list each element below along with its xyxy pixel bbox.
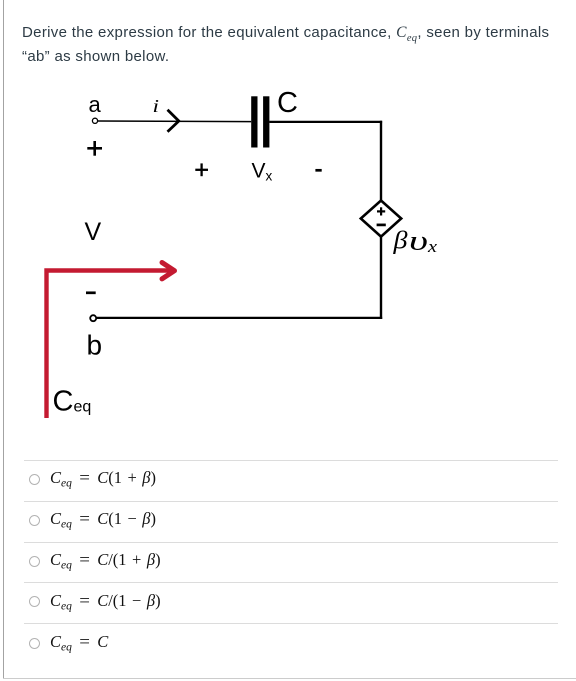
current arrow <box>168 110 179 132</box>
svg-text:C: C <box>277 87 298 119</box>
terminal b <box>90 315 96 321</box>
wire a to capacitor <box>98 120 252 123</box>
terminal a <box>92 118 97 123</box>
option 2 <box>29 515 40 526</box>
minus at terminal b <box>86 291 96 294</box>
wire source to bottom-right corner <box>380 236 382 320</box>
svg-text:β: β <box>392 228 408 255</box>
plus label of Vx <box>195 163 208 176</box>
bottom panel border <box>3 678 576 679</box>
plus at terminal a <box>87 141 102 156</box>
option 3 <box>29 556 40 567</box>
dependent source diamond <box>361 201 401 237</box>
svg-text:a: a <box>89 92 102 117</box>
left panel border <box>3 0 4 679</box>
option 4 <box>29 596 40 607</box>
svg-text:υ: υ <box>409 226 428 256</box>
capacitor C plates <box>251 96 269 147</box>
minus label of Vx <box>315 169 321 172</box>
minus inside source <box>377 224 386 227</box>
bottom wire <box>97 317 382 319</box>
svg-text:Ceq: Ceq <box>53 386 92 418</box>
plus inside source <box>377 207 385 215</box>
svg-text:b: b <box>87 330 103 361</box>
svg-text:V: V <box>85 218 102 246</box>
svg-text:Vx: Vx <box>252 160 273 184</box>
red Ceq reference arrow <box>47 263 175 419</box>
option 5 <box>29 638 40 649</box>
wire right side down to source <box>380 121 382 202</box>
question text <box>22 21 576 69</box>
option 1 <box>29 474 40 485</box>
svg-text:i: i <box>153 96 160 116</box>
wire capacitor to top-right corner <box>269 121 382 123</box>
svg-text:x: x <box>427 237 438 256</box>
option separators <box>24 460 558 461</box>
